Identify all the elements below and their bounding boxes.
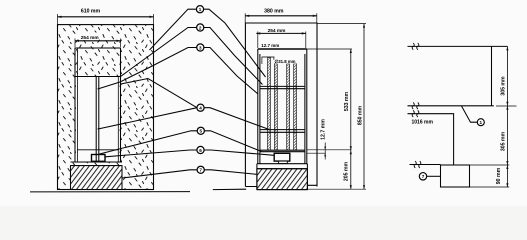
svg-text:254 mm: 254 mm bbox=[81, 35, 99, 41]
svg-text:7: 7 bbox=[199, 168, 202, 173]
svg-text:610 mm: 610 mm bbox=[81, 9, 101, 15]
svg-text:1: 1 bbox=[480, 120, 483, 125]
svg-text:2: 2 bbox=[199, 25, 202, 30]
svg-text:12.7 mm: 12.7 mm bbox=[261, 43, 279, 48]
svg-text:850 mm: 850 mm bbox=[357, 105, 363, 125]
svg-text:∅31.8 mm: ∅31.8 mm bbox=[275, 59, 296, 64]
svg-text:1016 mm: 1016 mm bbox=[411, 119, 433, 125]
svg-text:7: 7 bbox=[422, 174, 425, 179]
svg-text:533 mm: 533 mm bbox=[344, 91, 350, 111]
svg-text:5: 5 bbox=[200, 129, 203, 134]
svg-text:12.7 mm: 12.7 mm bbox=[321, 119, 327, 140]
svg-text:380 mm: 380 mm bbox=[264, 8, 284, 14]
svg-text:1: 1 bbox=[199, 7, 202, 12]
svg-text:305 mm: 305 mm bbox=[500, 131, 506, 151]
svg-text:205 mm: 205 mm bbox=[344, 161, 350, 181]
svg-text:254 mm: 254 mm bbox=[268, 28, 286, 34]
svg-text:3: 3 bbox=[199, 45, 202, 50]
svg-text:4: 4 bbox=[199, 106, 202, 111]
svg-text:6: 6 bbox=[199, 148, 202, 153]
svg-text:305 mm: 305 mm bbox=[500, 76, 506, 96]
svg-text:90 mm: 90 mm bbox=[496, 167, 502, 184]
